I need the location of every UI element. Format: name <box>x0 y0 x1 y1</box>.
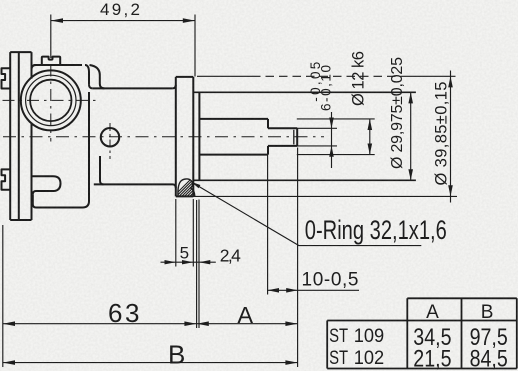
body top-left corner fillet <box>32 65 37 70</box>
port circle vertical centerline <box>50 65 52 142</box>
arrows A <box>197 321 209 326</box>
foot finger top <box>32 175 54 177</box>
neck top fillet <box>89 85 93 89</box>
table bottom border <box>327 368 517 370</box>
dim diameter 12 line vertical <box>369 119 371 155</box>
dim 63 and A line <box>3 323 298 325</box>
table col divider 1 <box>406 298 408 368</box>
dim 49,2 line <box>51 20 195 22</box>
hub bottom line <box>193 179 416 181</box>
body top-right corner <box>85 65 89 73</box>
arrows dia 39,85 <box>448 76 453 87</box>
arrows 5 / 2,4 <box>165 260 176 264</box>
shaft top line <box>199 118 268 120</box>
flange plate right edge <box>192 77 194 196</box>
dim 49,2 extension left <box>50 15 52 59</box>
foot finger underside <box>33 191 55 194</box>
left mounting tab bottom <box>2 169 10 189</box>
boss on body top <box>42 57 60 65</box>
dim diameter 39,85 line vertical <box>450 71 452 203</box>
shaft flat bottom line <box>268 145 297 147</box>
shaft end face <box>296 128 298 146</box>
arrows 49,2 <box>51 18 63 23</box>
body left face edge <box>31 52 33 220</box>
shaft bottom line <box>199 154 268 156</box>
pump body outline <box>2 52 416 220</box>
dim 5 and 2,4 line <box>161 261 216 263</box>
dim 10-0,5 line with underline <box>268 289 359 291</box>
table left border <box>326 321 328 369</box>
flange plate left edge <box>175 77 177 196</box>
dim B line <box>3 362 298 364</box>
main shaft centerline <box>3 136 324 138</box>
arrows 6 outside pointing in <box>329 118 334 129</box>
port circle bore <box>30 80 71 121</box>
table header top border <box>407 297 517 299</box>
arrows 63 <box>3 321 15 326</box>
flange dia extension top solid <box>406 75 456 77</box>
port flange plate outer <box>10 52 31 220</box>
centerlines <box>3 65 325 160</box>
body bottom edge <box>36 207 83 209</box>
body bottom right fillet <box>83 185 90 208</box>
o-ring leader arrowhead <box>191 182 200 188</box>
arrows 10-0,5 <box>268 288 279 293</box>
port circle middle ring <box>26 75 76 125</box>
left mounting tab top <box>2 68 10 88</box>
body top edge <box>34 64 83 66</box>
hub top line <box>193 91 416 93</box>
keyway step vertical bottom <box>267 146 269 155</box>
shaft flat top line <box>268 127 297 129</box>
flange dia extension top dashed <box>197 75 252 77</box>
table col divider 2 <box>461 298 463 368</box>
neck to flange top fillet <box>172 85 175 89</box>
neck root edge <box>90 65 105 184</box>
dim 5 extension mid <box>192 199 194 267</box>
shaft end chamfer <box>293 130 295 145</box>
O-ring cross-section hatched <box>170 178 214 200</box>
flange plate top edge <box>176 76 194 78</box>
dim diameter 29,975 line vertical <box>410 92 412 180</box>
table <box>327 298 517 368</box>
foot finger rounded tip <box>53 176 61 191</box>
bolt hole circle <box>101 128 119 146</box>
dim 2,4 extension right / hub face extension <box>198 200 200 329</box>
paper grain overlay <box>0 0 1 1</box>
table right border <box>516 298 518 368</box>
neck underside line <box>94 183 173 185</box>
flat bottom extension <box>297 145 337 147</box>
neck top line <box>93 87 173 89</box>
dim 5 extension left <box>175 199 177 267</box>
flange plate bottom edge <box>176 195 194 197</box>
extension flange face down <box>196 200 198 328</box>
dim 10-0,5 extension left <box>267 148 269 295</box>
dim 49,2 extension right <box>194 15 196 77</box>
body right edge <box>88 73 90 202</box>
flange dia extension bottom <box>193 195 457 197</box>
port circle horizontal centerline <box>3 99 98 101</box>
arrows B <box>3 360 15 365</box>
left extension for 63 and B <box>2 225 4 367</box>
o-ring leader line <box>193 183 421 246</box>
shaft dia extension bottom <box>297 154 375 156</box>
table header bottom border <box>327 320 517 322</box>
port circle outer <box>21 70 81 130</box>
dim 6 line vertical <box>331 112 333 168</box>
arrows dia 29,975 <box>408 92 413 103</box>
shaft dia extension top <box>297 118 375 120</box>
shared extension shaft end <box>297 148 299 368</box>
arrows dia 12 <box>368 119 373 130</box>
body bottom left fillet up <box>33 194 36 207</box>
shaft hub face <box>198 92 200 180</box>
keyway step vertical top <box>267 119 269 128</box>
neck underside to flange fillet <box>173 184 176 188</box>
flat top extension <box>297 127 337 129</box>
bolt hole vertical centerline <box>109 123 111 159</box>
